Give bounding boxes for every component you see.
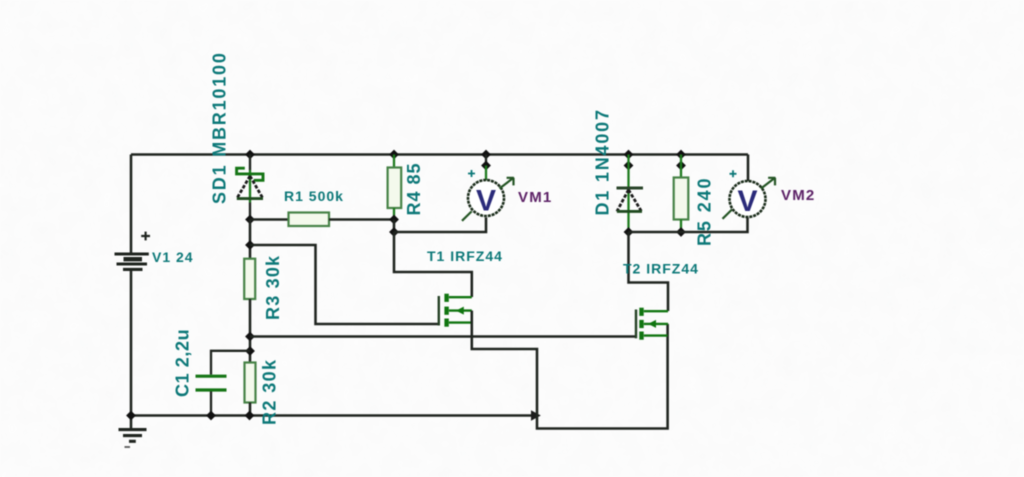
wire top rail [131, 153, 748, 156]
wire R3 bottom [249, 299, 252, 363]
wire R2 bottom [249, 403, 252, 416]
svg-text:V1 24: V1 24 [152, 249, 194, 265]
node SD1 top junction [245, 150, 255, 160]
junction C1 tap [245, 346, 255, 356]
wire to T1 gate [250, 245, 439, 324]
junction node C [245, 332, 255, 342]
wire R1 right [329, 218, 394, 221]
schottky diode SD1 [237, 168, 263, 198]
junction D1 bottom [624, 227, 634, 237]
junction R5 top [676, 150, 686, 160]
wire R4 bottom stub [393, 208, 395, 220]
wire node B to T1 drain [394, 232, 472, 297]
junction gate tap [245, 240, 255, 250]
svg-text:R5 240: R5 240 [695, 177, 715, 246]
voltmeter VM2 [723, 170, 776, 219]
svg-text:VM2: VM2 [781, 187, 815, 204]
wire through D1 [627, 155, 629, 233]
pin dot R5 [676, 161, 686, 171]
svg-text:T2 IRFZ44: T2 IRFZ44 [623, 261, 699, 277]
wire D1 to T2 drain [629, 232, 669, 311]
resistor R2 [245, 363, 256, 403]
wire C1 branch [211, 351, 250, 375]
svg-text:C1 2,2u: C1 2,2u [173, 329, 193, 397]
wire node C rail to T2 gate [250, 335, 636, 338]
svg-text:SD1 MBR10100: SD1 MBR10100 [210, 51, 230, 204]
battery V1 24 [115, 232, 151, 270]
junction D1 top [624, 150, 634, 160]
transistor T2 IRFZ44 [636, 308, 668, 340]
svg-text:R2 30k: R2 30k [260, 359, 280, 425]
wire left drop from rail to battery [130, 155, 133, 254]
wire C1 bottom [210, 392, 212, 416]
junction VM1 top [481, 150, 491, 160]
voltmeter VM1 [462, 170, 514, 221]
junction VM1 tap [389, 227, 399, 237]
svg-text:V: V [476, 185, 496, 218]
junction battery/ground [126, 411, 136, 421]
pin dot VM1 [481, 161, 491, 171]
wire R1 left [250, 218, 289, 221]
svg-text:V: V [737, 185, 757, 218]
junction R2 ground [245, 411, 255, 421]
wire VM1 top stub [485, 155, 487, 166]
ground [119, 416, 147, 448]
junction R1/R4 [389, 215, 399, 225]
wire node A down [249, 220, 252, 259]
wire node B [393, 220, 396, 233]
resistor R1 [289, 213, 330, 227]
junction R4 top [389, 150, 399, 160]
svg-text:R3 30k: R3 30k [263, 255, 283, 320]
junction C1 ground [206, 411, 216, 421]
junction SD1/R1 [245, 215, 255, 225]
wire R5 top stub [680, 155, 682, 178]
transistor T1 IRFZ44 [439, 294, 472, 327]
pin dot D1 [624, 161, 634, 171]
resistor R5 [674, 178, 689, 220]
wire R4 top stub [393, 155, 395, 168]
svg-text:VM1: VM1 [518, 189, 552, 206]
junction arrow into node [531, 410, 541, 420]
svg-text:D1 1N4007: D1 1N4007 [593, 108, 613, 215]
svg-text:R1 500k: R1 500k [284, 188, 344, 204]
junction R5 bottom [676, 227, 686, 237]
wire VM1 bottom [394, 218, 486, 233]
wire R5 bottom stub [680, 220, 682, 233]
wire ground rail [131, 414, 532, 417]
svg-text:R4 85: R4 85 [404, 162, 424, 215]
wire VM2 top [747, 155, 750, 182]
wire VM2 bottom [629, 218, 748, 233]
wire through SD1 [249, 155, 251, 171]
resistor R3 [244, 259, 255, 299]
wire VM1 green stub [485, 166, 487, 182]
capacitor C1 [196, 376, 227, 390]
wire T1 source down [472, 311, 668, 429]
wire battery to ground rail [130, 270, 133, 416]
svg-text:T1 IRFZ44: T1 IRFZ44 [427, 248, 503, 264]
resistor R4 [388, 168, 402, 209]
diode D1 1N4007 [617, 188, 644, 211]
